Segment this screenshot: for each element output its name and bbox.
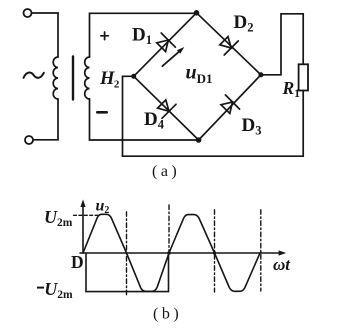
dashed vertical at 4pi: [260, 210, 262, 291]
AC source tilde: [24, 73, 44, 78]
svg-text:(b): (b): [153, 306, 182, 323]
svg-text:D1: D1: [132, 25, 152, 48]
bottom rail wire: [123, 91, 304, 157]
diode D2: [220, 37, 239, 55]
u_D1 reference arrow: [162, 47, 184, 66]
svg-text:U2m: U2m: [44, 279, 73, 301]
svg-text:D: D: [71, 252, 84, 272]
dot at 3pi crossing: [213, 251, 216, 254]
y axis: [82, 202, 84, 253]
svg-text:(a): (a): [152, 163, 180, 180]
node left: [131, 74, 136, 79]
bridge branch D1 (left node to top node): [134, 13, 197, 77]
diode D1: [157, 33, 176, 52]
u2 sine curve: [83, 214, 260, 291]
x axis arrowhead: [279, 250, 287, 255]
svg-text:R1: R1: [282, 78, 301, 100]
transformer core: [72, 57, 74, 100]
dot at 2pi crossing: [167, 251, 171, 255]
svg-text:U2m: U2m: [44, 207, 73, 229]
svg-text:D3: D3: [242, 115, 262, 138]
dashed vertical at 3pi: [214, 210, 216, 292]
wire right node up and over to R1: [261, 14, 303, 75]
y axis arrowhead: [80, 200, 85, 208]
wire left node down to bottom rail: [123, 76, 134, 156]
svg-text:H2: H2: [99, 69, 120, 91]
bridge branch D4 (left node to bottom node): [134, 76, 199, 140]
label - (secondary bottom polarity): [97, 111, 106, 114]
x axis (omega-t): [80, 252, 283, 254]
svg-text:uD1: uD1: [186, 62, 213, 87]
node top: [194, 10, 200, 16]
bridge branch D2 (top node to right node): [197, 13, 261, 75]
transformer primary coil: [53, 57, 58, 99]
terminal bottom-left: [25, 136, 33, 144]
bridge branch D3 (bottom node to right node): [199, 75, 261, 140]
terminal top-left: [24, 9, 32, 17]
dashed vertical at 2pi (above axis): [168, 205, 170, 252]
label + (secondary top polarity): [101, 32, 109, 40]
dashed vertical at pi: [126, 212, 128, 295]
label -U2m: [37, 287, 44, 289]
diode D3: [221, 95, 240, 114]
wire primary to bottom-left terminal: [33, 99, 58, 140]
svg-text:D4: D4: [144, 109, 165, 132]
wire secondary top to bridge top node: [90, 13, 197, 57]
svg-text:u2: u2: [96, 198, 110, 217]
transformer secondary coil H2: [85, 57, 90, 99]
svg-text:D2: D2: [234, 12, 254, 35]
node right: [258, 72, 263, 77]
dashed level line U2m: [74, 214, 99, 216]
wire top-left terminal to primary: [32, 13, 58, 57]
rectangle wave u_D1: [86, 253, 169, 292]
wire secondary bottom to bridge bottom node: [90, 99, 199, 140]
resistor R1 body: [299, 64, 308, 90]
node bottom: [196, 137, 202, 143]
svg-text:ωt: ωt: [273, 255, 291, 274]
diode D4: [158, 100, 176, 118]
